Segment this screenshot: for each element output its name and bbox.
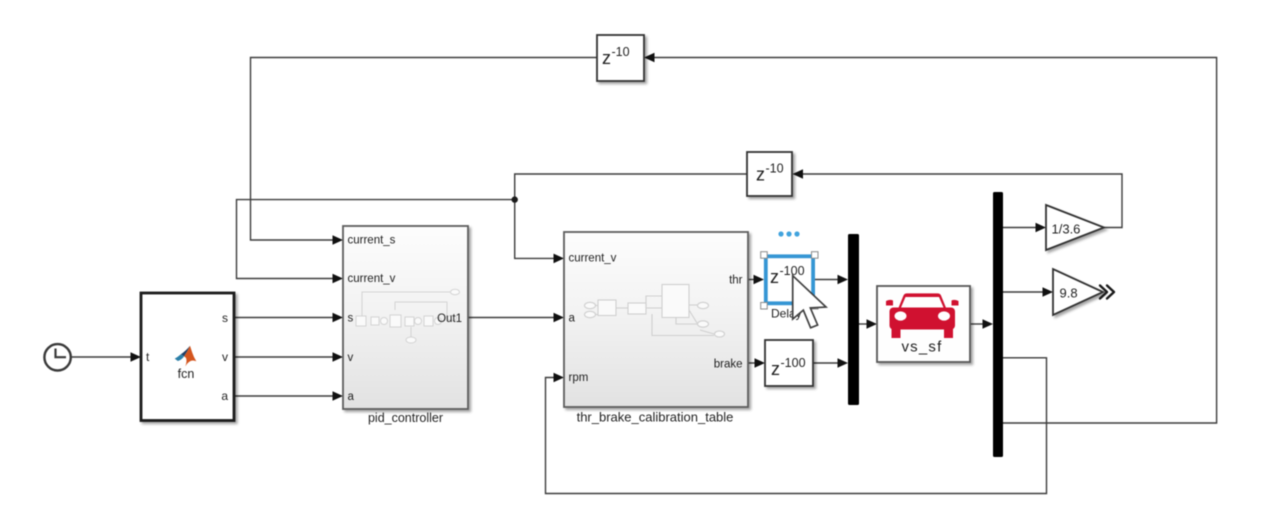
svg-text:fcn: fcn: [178, 367, 195, 381]
svg-text:Out1: Out1: [437, 313, 462, 325]
svg-text:rpm: rpm: [569, 372, 589, 384]
svg-text:z: z: [602, 48, 611, 68]
svg-text:z: z: [771, 359, 780, 379]
svg-text:v: v: [348, 352, 354, 364]
svg-text:z: z: [756, 165, 765, 185]
svg-text:-100: -100: [781, 356, 806, 370]
svg-text:a: a: [221, 389, 228, 403]
svg-text:pid_controller: pid_controller: [368, 411, 443, 425]
svg-text:-10: -10: [612, 45, 630, 59]
svg-text:v: v: [222, 350, 228, 364]
svg-text:a: a: [569, 313, 576, 325]
svg-text:-10: -10: [766, 162, 784, 176]
svg-text:thr_brake_calibration_table: thr_brake_calibration_table: [577, 410, 734, 425]
svg-text:1/3.6: 1/3.6: [1052, 222, 1081, 237]
svg-text:thr: thr: [729, 275, 743, 287]
svg-text:z: z: [770, 267, 779, 287]
svg-text:s: s: [348, 313, 354, 325]
svg-text:a: a: [348, 391, 355, 403]
svg-text:current_s: current_s: [348, 235, 396, 247]
svg-text:s: s: [222, 311, 228, 325]
svg-text:brake: brake: [714, 359, 743, 371]
svg-text:9.8: 9.8: [1060, 286, 1078, 301]
svg-text:current_v: current_v: [348, 273, 396, 285]
svg-text:vs_sf: vs_sf: [901, 339, 942, 356]
svg-text:current_v: current_v: [569, 253, 617, 265]
